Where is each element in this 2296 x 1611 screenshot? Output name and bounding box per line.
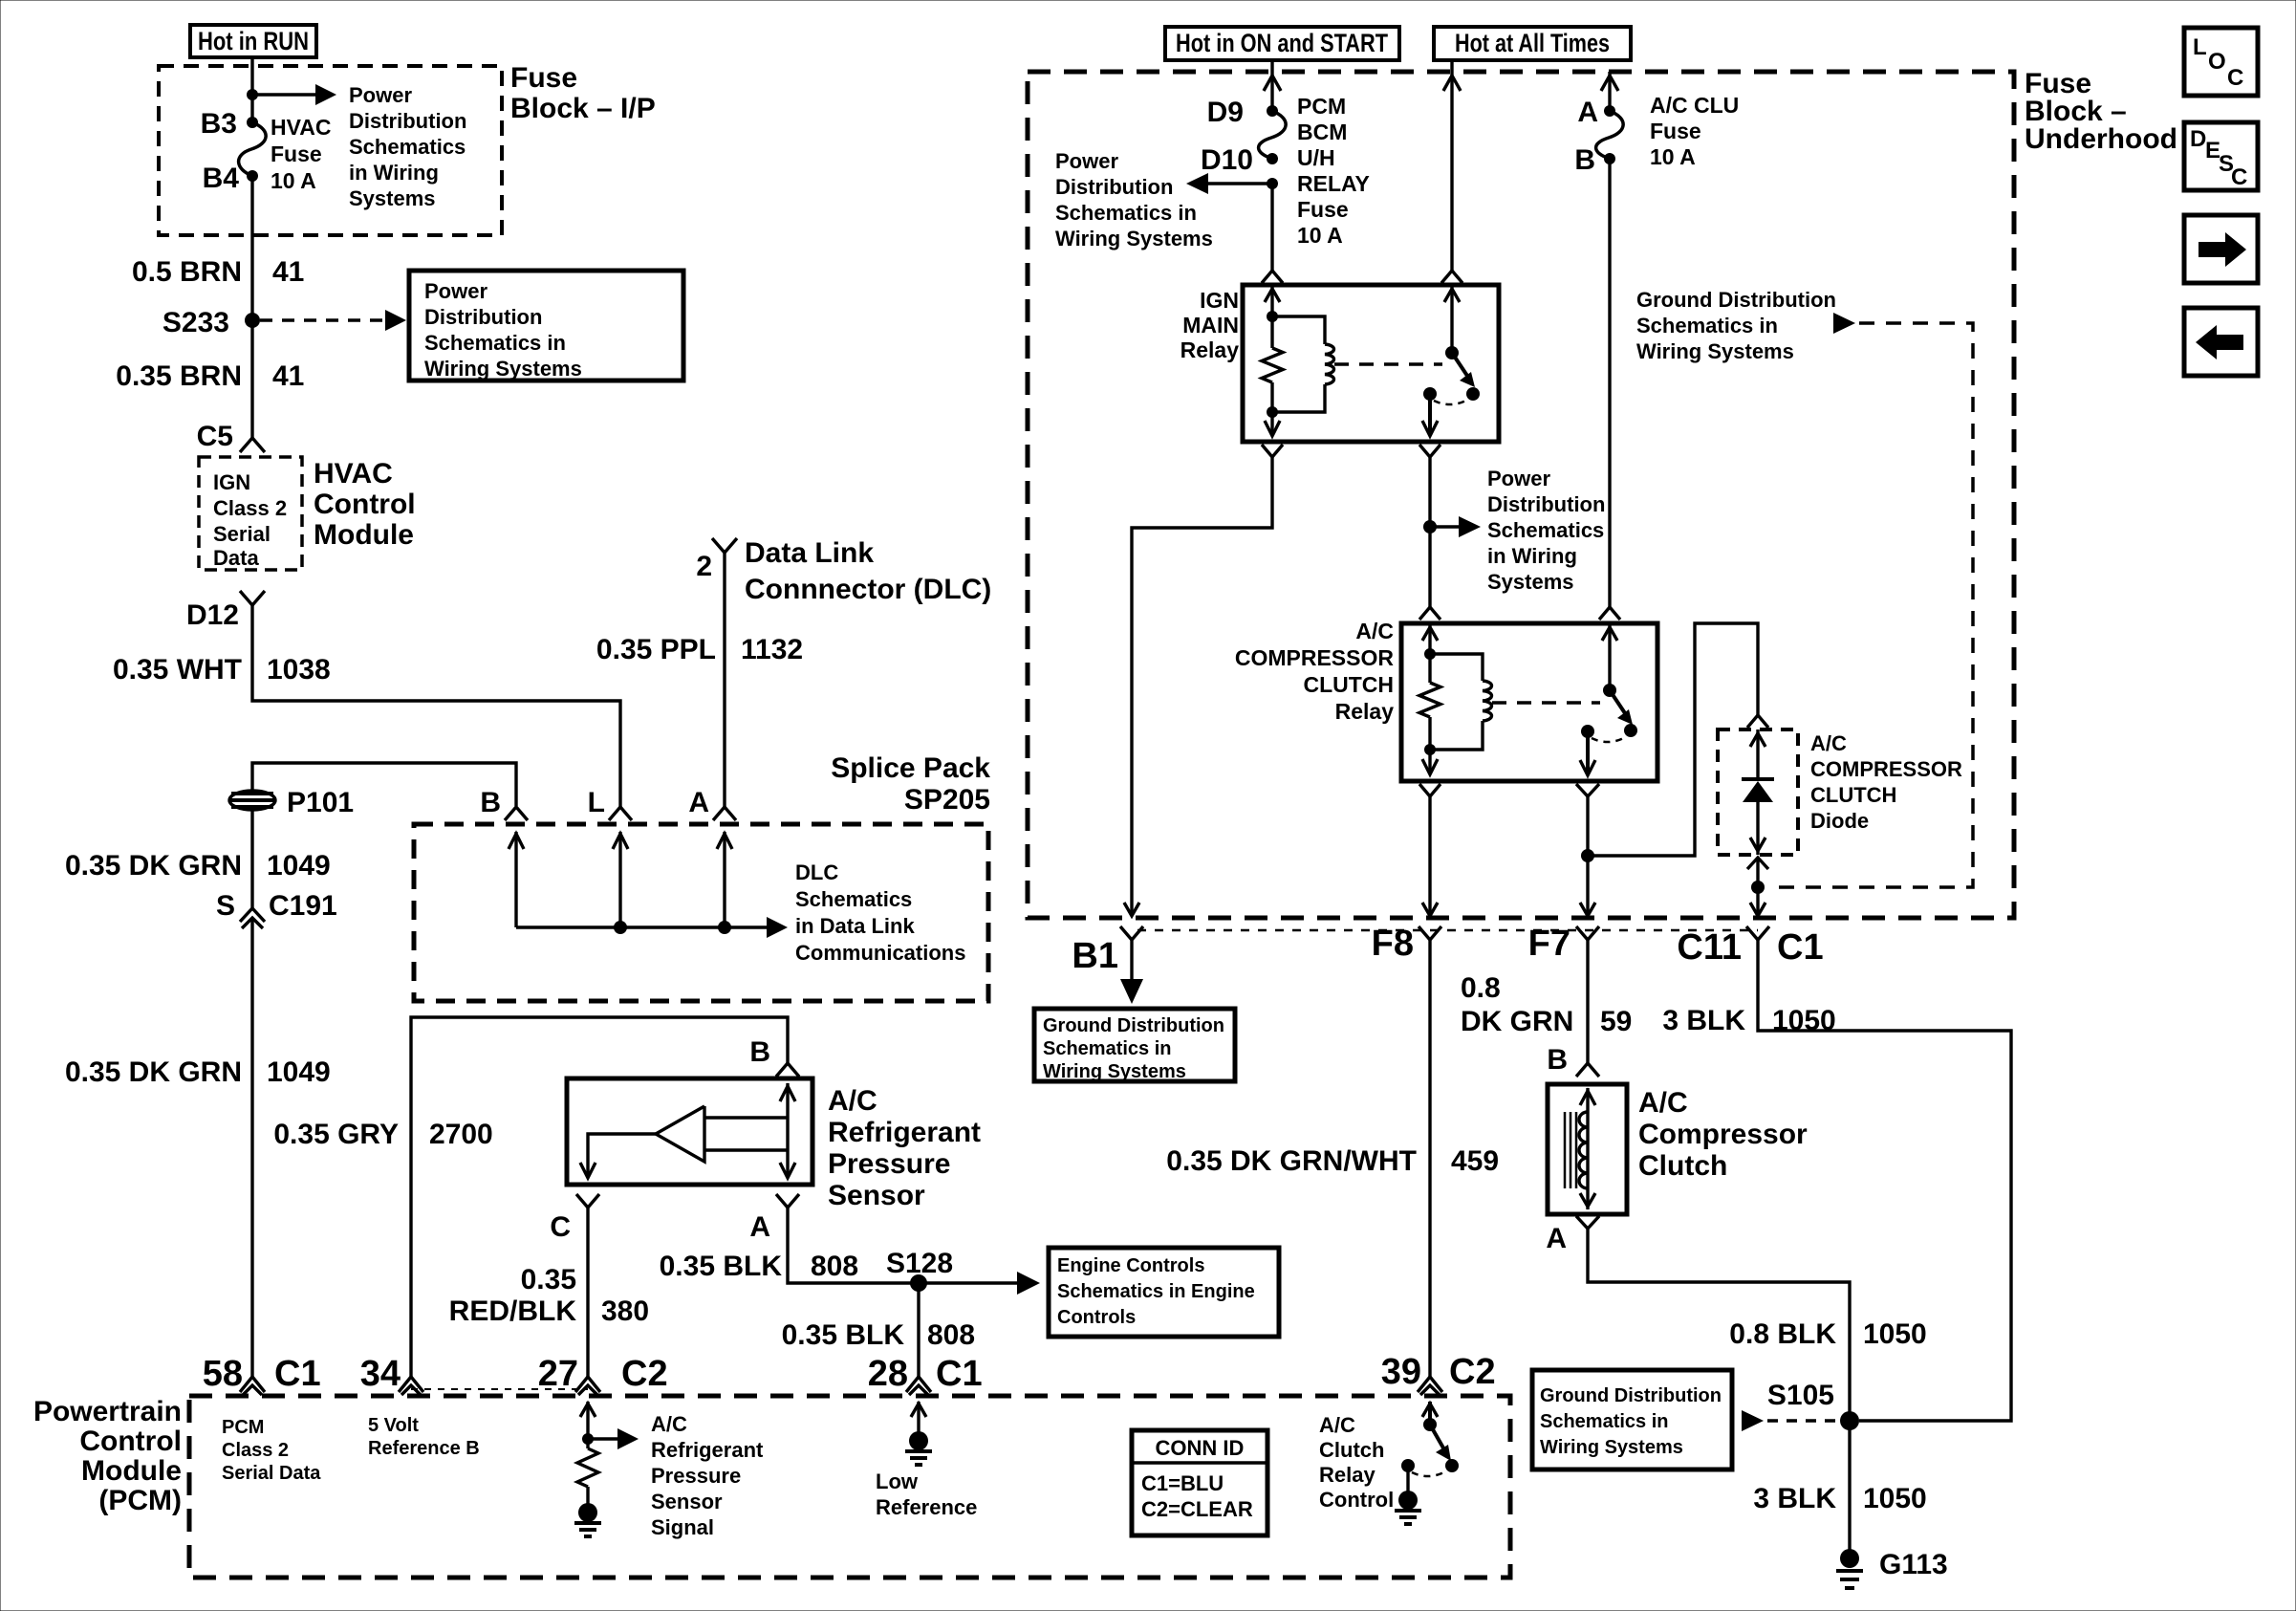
svg-text:CONN ID: CONN ID <box>1156 1436 1245 1460</box>
wire diode parallel loop <box>1588 623 1758 856</box>
header Hot in ON and START <box>1165 27 1399 60</box>
svg-text:Schematics: Schematics <box>349 135 466 159</box>
label 0.35 DK GRN 1049 (lower) <box>65 1056 331 1088</box>
label A/C COMPRESSOR CLUTCH Relay <box>1235 619 1395 724</box>
svg-text:Ground Distribution: Ground Distribution <box>1043 1015 1224 1036</box>
icon LOC box <box>2184 28 2258 96</box>
fuse block underhood dashed box <box>1028 72 2014 918</box>
wire S233 to C5 <box>250 320 253 439</box>
label 0.35 RED/BLK 380 <box>449 1264 649 1327</box>
pin 34 <box>360 1354 423 1395</box>
svg-text:Power: Power <box>349 83 412 107</box>
svg-text:Schematics in: Schematics in <box>1043 1038 1172 1059</box>
label 0.35 DK GRN/WHT 459 <box>1166 1145 1499 1177</box>
wire A/C CLU fuse <box>1601 72 1618 111</box>
relay A/C switch <box>1492 623 1637 775</box>
icon left arrow box <box>2184 308 2258 376</box>
SECTION-LEFT <box>65 25 683 1377</box>
label 0.35 BLK 808 (lower) <box>782 1319 975 1351</box>
label 0.35 BRN 41 <box>116 360 304 392</box>
svg-text:HVAC: HVAC <box>314 458 393 490</box>
wire A/C relay coil to F8 <box>1422 796 1438 916</box>
node junction to power dist <box>1423 520 1437 533</box>
wire sensor B loop to PCM 34 <box>411 1017 788 1377</box>
splice pack SP205 dashed box <box>414 824 988 1001</box>
wire dashed arrow to S105 <box>1742 1410 1840 1431</box>
svg-text:MAIN: MAIN <box>1182 313 1239 337</box>
wire F7 to compressor clutch B <box>1586 940 1589 1063</box>
label power distribution schematics (fuse block I/P) <box>349 83 466 210</box>
svg-text:Fuse: Fuse <box>271 142 322 166</box>
svg-text:Refrigerant: Refrigerant <box>651 1438 764 1462</box>
svg-text:Compressor: Compressor <box>1638 1119 1808 1150</box>
svg-text:Relay: Relay <box>1319 1463 1375 1487</box>
svg-text:1049: 1049 <box>267 850 331 882</box>
svg-text:0.35 DK GRN: 0.35 DK GRN <box>65 850 242 882</box>
svg-text:COMPRESSOR: COMPRESSOR <box>1810 757 1962 781</box>
svg-text:Reference B: Reference B <box>368 1438 480 1459</box>
svg-text:3 BLK: 3 BLK <box>1662 1005 1745 1036</box>
svg-text:Schematics: Schematics <box>795 887 912 911</box>
svg-text:IGN: IGN <box>1200 288 1239 313</box>
svg-text:0.8: 0.8 <box>1461 972 1501 1004</box>
pin A of pressure sensor <box>749 1194 799 1243</box>
label A/C Refrigerant Pressure Sensor <box>828 1085 981 1211</box>
svg-text:0.35 BRN: 0.35 BRN <box>116 360 242 392</box>
svg-text:39: 39 <box>1381 1352 1421 1392</box>
svg-text:G113: G113 <box>1879 1549 1948 1580</box>
svg-text:Hot at All Times: Hot at All Times <box>1455 29 1610 57</box>
wire DLC to A terminal <box>723 553 726 808</box>
wire B terminal to P101 <box>252 763 516 806</box>
wire sensor C to PCM 27 <box>586 1208 589 1377</box>
label 0.35 BLK 808 (upper) <box>660 1251 858 1282</box>
header Hot at All Times <box>1434 27 1631 60</box>
diode A/C COMPRESSOR CLUTCH Diode dashed box <box>1718 729 1798 855</box>
svg-text:Distribution: Distribution <box>424 305 542 329</box>
svg-text:Communications: Communications <box>795 941 965 965</box>
svg-text:Fuse: Fuse <box>1297 197 1349 222</box>
label A/C Compressor Clutch <box>1638 1087 1808 1182</box>
svg-text:41: 41 <box>272 360 304 392</box>
svg-text:Ground Distribution: Ground Distribution <box>1540 1385 1722 1406</box>
label 0.5 BRN 41 <box>132 256 304 288</box>
wire Hot in RUN to HVAC fuse <box>250 57 253 122</box>
svg-text:1132: 1132 <box>741 634 803 665</box>
svg-text:C11: C11 <box>1677 927 1742 968</box>
svg-text:2700: 2700 <box>429 1119 493 1150</box>
svg-text:Underhood: Underhood <box>2025 123 2177 155</box>
label A/C Refrigerant Pressure Sensor Signal <box>651 1412 764 1539</box>
label PCM Class 2 Serial Data <box>222 1417 321 1484</box>
svg-text:C1=BLU: C1=BLU <box>1141 1471 1224 1495</box>
svg-text:Engine Controls: Engine Controls <box>1057 1255 1204 1276</box>
pin 2 DLC connector <box>696 538 737 582</box>
svg-text:Schematics in: Schematics in <box>1540 1411 1669 1432</box>
svg-text:Controls: Controls <box>1057 1307 1136 1328</box>
svg-text:0.35: 0.35 <box>521 1264 576 1295</box>
svg-text:Distribution: Distribution <box>1487 492 1605 516</box>
connector C191 <box>216 890 337 928</box>
svg-text:(PCM): (PCM) <box>98 1485 182 1516</box>
svg-text:59: 59 <box>1600 1006 1632 1037</box>
wire L into splice bus <box>613 832 628 927</box>
fuse PCM BCM U/H RELAY Fuse 10A <box>1259 111 1287 159</box>
svg-text:1050: 1050 <box>1863 1483 1927 1514</box>
svg-text:Block – I/P: Block – I/P <box>510 93 656 124</box>
pin C11 C1 <box>1677 926 1823 968</box>
node junction to diode <box>1581 849 1594 862</box>
svg-text:S: S <box>216 890 235 922</box>
low reference ground inside PCM <box>905 1402 932 1465</box>
svg-text:B3: B3 <box>201 108 237 140</box>
svg-text:0.35 DK GRN: 0.35 DK GRN <box>65 1056 242 1088</box>
sensor internal amplifier <box>580 1083 795 1178</box>
label 0.35 GRY 2700 <box>273 1119 492 1150</box>
pin A of A/C CLU fuse <box>1604 105 1615 117</box>
SECTION-MID <box>273 537 1279 1377</box>
svg-text:Serial Data: Serial Data <box>222 1463 321 1484</box>
label HVAC Control Module <box>314 458 416 551</box>
wire S105 to G113 <box>1848 1421 1851 1554</box>
svg-text:BCM: BCM <box>1297 120 1347 144</box>
connector P101 <box>229 787 354 818</box>
svg-text:A: A <box>749 1211 770 1243</box>
svg-text:Systems: Systems <box>349 186 436 210</box>
wire arrow to power distribution <box>252 84 336 105</box>
svg-text:A/C: A/C <box>1810 731 1847 755</box>
connector above IGN relay coil pin <box>1262 271 1283 283</box>
label 0.35 DK GRN 1049 (upper) <box>65 850 331 882</box>
svg-text:C2: C2 <box>1449 1352 1496 1392</box>
svg-text:Serial: Serial <box>213 522 271 546</box>
pin 27 C2 <box>538 1354 668 1395</box>
CONN ID table <box>1132 1430 1267 1535</box>
svg-text:Powertrain: Powertrain <box>33 1396 182 1427</box>
svg-text:B4: B4 <box>203 163 240 194</box>
svg-text:A/C CLU: A/C CLU <box>1650 93 1739 118</box>
svg-text:CLUTCH: CLUTCH <box>1303 672 1394 697</box>
svg-text:0.35 BLK: 0.35 BLK <box>782 1319 905 1351</box>
HVAC control module dashed box <box>199 457 302 570</box>
svg-text:B1: B1 <box>1072 936 1118 976</box>
svg-text:Class 2: Class 2 <box>222 1440 289 1461</box>
svg-text:S128: S128 <box>886 1248 953 1279</box>
label ground distribution box (B1) <box>1034 1009 1235 1082</box>
label power distribution schematics (mid) <box>1487 467 1605 594</box>
A/C pressure sensor signal circuit inside PCM <box>574 1402 639 1536</box>
svg-text:Wiring Systems: Wiring Systems <box>424 357 582 381</box>
svg-text:41: 41 <box>272 256 304 288</box>
splice S233 <box>245 313 260 328</box>
SECTION-BOTTOM <box>33 924 2011 1588</box>
svg-text:Power: Power <box>1487 467 1550 490</box>
A/C refrigerant pressure sensor box <box>567 1078 812 1185</box>
svg-text:A: A <box>688 787 709 818</box>
svg-text:RED/BLK: RED/BLK <box>449 1295 577 1327</box>
svg-text:0.35 PPL: 0.35 PPL <box>596 634 716 665</box>
svg-text:Power: Power <box>424 279 487 303</box>
svg-text:C: C <box>2231 164 2247 190</box>
wire B into splice bus <box>509 832 524 927</box>
wire C1 to S105 <box>1758 940 2011 1421</box>
connector above A/C relay coil pin <box>1419 607 1440 620</box>
label 5 Volt Reference B <box>368 1415 480 1459</box>
wire C191 to PCM pin 58 <box>250 918 253 1377</box>
pin C of pressure sensor <box>550 1194 599 1243</box>
connector below IGN relay coil <box>1262 445 1283 457</box>
svg-text:A/C: A/C <box>651 1412 687 1436</box>
svg-text:C: C <box>550 1211 571 1243</box>
svg-text:2: 2 <box>696 551 712 582</box>
svg-text:A/C: A/C <box>828 1085 877 1117</box>
PCM dashed box <box>189 1396 1510 1578</box>
label Splice Pack SP205 <box>831 752 990 816</box>
svg-text:Schematics in: Schematics in <box>1636 314 1778 337</box>
node splice bus at A <box>718 921 731 934</box>
wire A/C CLU fuse to A/C relay <box>1608 159 1611 607</box>
svg-text:D12: D12 <box>186 599 239 631</box>
label IGN MAIN Relay <box>1180 288 1240 362</box>
wire Hot in ON and START to PCM BCM fuse <box>1264 60 1281 111</box>
svg-text:CLUTCH: CLUTCH <box>1810 783 1896 807</box>
fuse block I/P dashed box <box>159 66 502 235</box>
svg-text:Schematics in: Schematics in <box>424 331 566 355</box>
svg-text:1050: 1050 <box>1772 1005 1836 1036</box>
label power distribution schematics (u/h fuse) <box>1055 149 1213 250</box>
svg-text:COMPRESSOR: COMPRESSOR <box>1235 645 1395 670</box>
svg-text:Wiring Systems: Wiring Systems <box>1540 1437 1683 1458</box>
svg-text:380: 380 <box>601 1295 649 1327</box>
icon right arrow box <box>2184 215 2258 283</box>
svg-text:0.35 WHT: 0.35 WHT <box>113 654 242 686</box>
connector below A/C relay coil <box>1419 784 1440 796</box>
svg-text:Ground Distribution: Ground Distribution <box>1636 288 1836 312</box>
svg-text:Hot in ON and START: Hot in ON and START <box>1176 29 1388 57</box>
svg-text:Relay: Relay <box>1180 337 1240 362</box>
svg-text:10 A: 10 A <box>271 168 316 193</box>
svg-text:5 Volt: 5 Volt <box>368 1415 419 1436</box>
svg-text:B: B <box>749 1036 770 1068</box>
svg-text:Fuse: Fuse <box>510 62 577 94</box>
svg-text:1038: 1038 <box>267 654 331 686</box>
pin B of A/C CLU fuse <box>1604 153 1615 164</box>
svg-text:0.35 BLK: 0.35 BLK <box>660 1251 783 1282</box>
label engine controls box <box>1049 1248 1279 1337</box>
wire D12 to L terminal <box>252 604 620 808</box>
wire arrow S128 to engine controls <box>919 1272 1040 1295</box>
svg-text:1049: 1049 <box>267 1056 331 1088</box>
svg-text:808: 808 <box>927 1319 975 1351</box>
svg-text:O: O <box>2208 49 2226 75</box>
svg-text:Distribution: Distribution <box>349 109 466 133</box>
wire A/C relay switch to F7 <box>1580 796 1595 916</box>
svg-text:A: A <box>1546 1223 1567 1254</box>
pin D12 connector <box>186 591 265 631</box>
clutch coil symbol <box>1565 1088 1595 1209</box>
svg-text:Refrigerant: Refrigerant <box>828 1117 981 1148</box>
terminal A of SP205 <box>688 787 736 820</box>
svg-text:Wiring Systems: Wiring Systems <box>1055 227 1213 250</box>
svg-text:C1: C1 <box>274 1354 321 1394</box>
label 0.35 WHT 1038 <box>113 654 331 686</box>
svg-text:0.35 DK GRN/WHT: 0.35 DK GRN/WHT <box>1166 1145 1417 1177</box>
splice S128 <box>910 1274 927 1292</box>
svg-text:S105: S105 <box>1767 1380 1834 1411</box>
svg-text:Schematics: Schematics <box>1487 518 1604 542</box>
svg-text:10 A: 10 A <box>1650 144 1696 169</box>
svg-text:1050: 1050 <box>1863 1318 1927 1350</box>
svg-text:Sensor: Sensor <box>651 1490 723 1513</box>
wire arrow to power distribution (left) <box>1186 173 1272 194</box>
label A/C CLU Fuse 10 A <box>1650 93 1739 169</box>
pin B of pressure sensor <box>749 1036 799 1077</box>
svg-text:Reference: Reference <box>876 1495 977 1519</box>
connector below IGN relay switch <box>1419 445 1440 457</box>
label HVAC Fuse 10 A <box>271 115 331 193</box>
svg-text:A/C: A/C <box>1638 1087 1688 1119</box>
wire IGN relay switch to A/C relay <box>1428 457 1431 607</box>
pin 58 C1 <box>203 1354 321 1395</box>
label ground distribution schematics (top right) <box>1636 288 1836 363</box>
wire P101 to C191 <box>250 809 253 908</box>
fuse HVAC Fuse 10A <box>239 122 267 176</box>
svg-text:B: B <box>1574 144 1595 176</box>
pin 39 C2 <box>1381 1352 1496 1395</box>
svg-text:in Wiring: in Wiring <box>349 161 439 185</box>
svg-text:C1: C1 <box>936 1354 983 1394</box>
pin B of compressor clutch <box>1547 1044 1599 1077</box>
svg-text:C191: C191 <box>269 890 337 922</box>
wire B1 arrow to ground distribution box <box>1120 940 1143 1004</box>
svg-text:Low: Low <box>876 1469 919 1493</box>
svg-text:Signal: Signal <box>651 1515 714 1539</box>
svg-text:10 A: 10 A <box>1297 223 1343 248</box>
svg-text:Sensor: Sensor <box>828 1180 925 1211</box>
svg-text:PCM: PCM <box>222 1417 264 1438</box>
pin D9 <box>1267 105 1278 117</box>
fuse A/C CLU Fuse 10A <box>1596 111 1624 159</box>
svg-text:Pressure: Pressure <box>828 1148 950 1180</box>
svg-text:Systems: Systems <box>1487 570 1574 594</box>
svg-text:0.35 GRY: 0.35 GRY <box>273 1119 399 1150</box>
svg-text:C2=CLEAR: C2=CLEAR <box>1141 1497 1253 1521</box>
svg-text:459: 459 <box>1451 1145 1499 1177</box>
wire S128 to PCM 28 <box>917 1283 920 1377</box>
label Low Reference <box>876 1469 977 1519</box>
svg-text:C5: C5 <box>197 421 233 452</box>
relay IGN switch <box>1334 285 1480 436</box>
svg-text:Class 2: Class 2 <box>213 496 287 520</box>
label 0.8 DK GRN 59 <box>1461 972 1632 1037</box>
svg-text:Diode: Diode <box>1810 809 1869 833</box>
wire B4 to S233 <box>250 176 253 320</box>
label Fuse Block - I/P <box>510 62 656 124</box>
svg-text:3 BLK: 3 BLK <box>1753 1483 1836 1514</box>
pin C5 connector <box>197 421 265 452</box>
pin A of compressor clutch <box>1546 1216 1599 1254</box>
wire D10 to IGN MAIN relay <box>1270 184 1273 271</box>
label 0.8 BLK 1050 <box>1729 1318 1926 1350</box>
svg-text:Data: Data <box>213 546 259 570</box>
terminal B of SP205 <box>480 787 528 820</box>
svg-text:Schematics in: Schematics in <box>1055 201 1197 225</box>
label 0.35 PPL 1132 <box>596 634 803 665</box>
pin D10 <box>1267 153 1278 164</box>
svg-text:HVAC: HVAC <box>271 115 331 140</box>
wire dashed arrow S233 to power dist box <box>260 310 406 331</box>
label IGN Class 2 Serial Data <box>213 470 287 570</box>
svg-text:808: 808 <box>811 1251 858 1282</box>
svg-text:Pressure: Pressure <box>651 1464 741 1488</box>
pin F7 <box>1528 924 1599 964</box>
label Data Link Connnector (DLC) <box>745 537 991 605</box>
connector row thin dashed (pin 34 to 27) <box>411 1388 588 1390</box>
svg-text:SP205: SP205 <box>904 784 990 816</box>
SECTION-RIGHT <box>1028 27 2258 918</box>
svg-text:Wiring Systems: Wiring Systems <box>1636 339 1794 363</box>
svg-text:D9: D9 <box>1207 97 1244 128</box>
svg-text:A: A <box>1577 97 1598 128</box>
svg-text:A/C: A/C <box>1319 1413 1355 1437</box>
svg-text:C1: C1 <box>1777 927 1824 968</box>
svg-text:P101: P101 <box>287 787 354 818</box>
svg-text:RELAY: RELAY <box>1297 171 1370 196</box>
svg-text:D: D <box>2190 126 2206 152</box>
svg-text:C: C <box>2227 65 2243 91</box>
svg-text:DK GRN: DK GRN <box>1461 1006 1573 1037</box>
svg-text:A/C: A/C <box>1355 619 1394 643</box>
svg-text:Control: Control <box>1319 1488 1394 1512</box>
splice S105 <box>1840 1411 1859 1430</box>
label DLC Schematics in Data Link Communications <box>795 860 965 965</box>
svg-text:Distribution: Distribution <box>1055 175 1173 199</box>
svg-text:Hot in RUN: Hot in RUN <box>198 27 309 55</box>
wire diode to C11 <box>1750 858 1765 916</box>
svg-text:Data Link: Data Link <box>745 537 874 569</box>
svg-text:Power: Power <box>1055 149 1118 173</box>
compressor clutch box <box>1548 1084 1627 1214</box>
wire arrow to power distribution schematics <box>1430 516 1481 537</box>
relay IGN MAIN Relay box <box>1243 285 1499 442</box>
relay IGN coil circuit <box>1262 285 1333 436</box>
wire IGN relay coil to B1 <box>1132 457 1272 916</box>
svg-text:Fuse: Fuse <box>1650 119 1701 143</box>
svg-text:34: 34 <box>360 1354 401 1394</box>
wire splice bus with arrow <box>516 917 788 938</box>
diode symbol <box>1742 729 1774 855</box>
svg-text:U/H: U/H <box>1297 145 1335 170</box>
svg-text:B: B <box>1547 1044 1568 1076</box>
wire A into splice bus <box>717 832 732 927</box>
connector above diode <box>1747 715 1768 728</box>
svg-text:Splice Pack: Splice Pack <box>831 752 990 784</box>
svg-text:Clutch: Clutch <box>1319 1438 1384 1462</box>
label 3 BLK 1050 (lower) <box>1753 1483 1926 1514</box>
terminal L of SP205 <box>588 787 632 820</box>
svg-text:DLC: DLC <box>795 860 838 884</box>
label Fuse Block - Underhood <box>2025 68 2177 155</box>
svg-text:Relay: Relay <box>1335 699 1395 724</box>
svg-text:0.5 BRN: 0.5 BRN <box>132 256 242 288</box>
svg-text:L: L <box>2193 34 2207 60</box>
svg-text:F7: F7 <box>1528 924 1570 964</box>
node splice bus at L <box>614 921 627 934</box>
svg-text:IGN: IGN <box>213 470 250 494</box>
node junction below D10 <box>1267 178 1278 189</box>
svg-text:0.8 BLK: 0.8 BLK <box>1729 1318 1836 1350</box>
relay A/C COMPRESSOR CLUTCH Relay box <box>1401 623 1657 781</box>
